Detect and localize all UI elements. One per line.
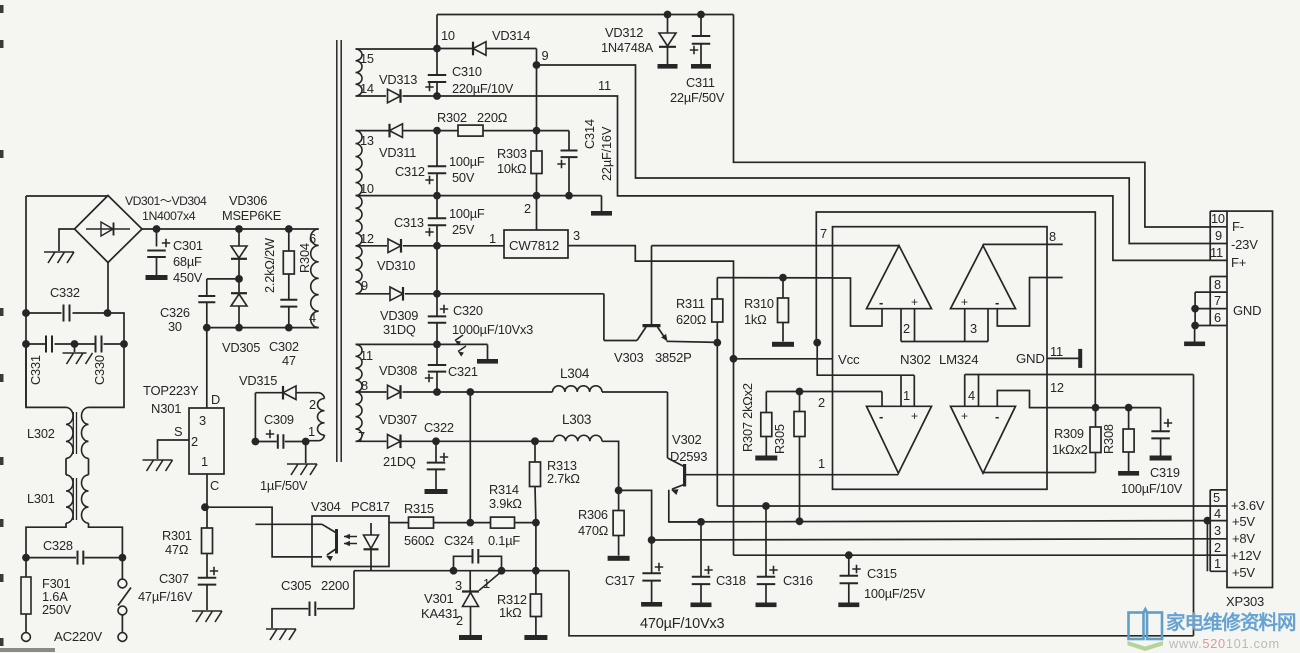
op3 + notch <box>901 375 914 406</box>
label VD309 31DQ <box>380 308 418 337</box>
svg-text:22µF/16V: 22µF/16V <box>599 126 614 181</box>
svg-text:VD305: VD305 <box>222 340 260 355</box>
svg-text:V302: V302 <box>672 432 702 447</box>
wire 12V out <box>568 246 734 359</box>
XP pins 10/9/11 cells <box>1210 211 1227 260</box>
wire C pin <box>201 474 209 511</box>
svg-text:+: + <box>911 409 918 423</box>
wire base row (op3 out) <box>685 474 899 476</box>
svg-text:11: 11 <box>598 78 611 93</box>
svg-text:S: S <box>174 424 182 439</box>
capacitor C311 <box>690 11 711 69</box>
svg-text:1kΩx2: 1kΩx2 <box>1052 442 1088 457</box>
label +3.6V <box>1231 498 1265 513</box>
label R313 2.7kΩ <box>547 458 580 486</box>
label C310 220µF/10V <box>452 64 514 96</box>
winding 10-12 <box>356 196 363 246</box>
capacitor C301 <box>146 229 171 280</box>
svg-text:50V: 50V <box>452 170 475 185</box>
svg-text:L301: L301 <box>27 491 55 506</box>
svg-text:C312: C312 <box>395 164 425 179</box>
svg-text:100µF: 100µF <box>449 154 485 169</box>
wire node9 down to R303 <box>533 65 541 135</box>
svg-text:-: - <box>879 295 883 310</box>
transistor V303 <box>604 246 717 343</box>
svg-text:10kΩ: 10kΩ <box>497 161 527 176</box>
svg-text:C319: C319 <box>1150 465 1180 480</box>
wire node9 to -23V <box>537 65 1211 244</box>
label C318 <box>716 573 746 588</box>
label C305 2200 <box>281 578 349 593</box>
svg-text:-: - <box>995 409 999 424</box>
op1 + notch <box>901 309 915 342</box>
svg-text:11: 11 <box>1050 344 1063 359</box>
svg-text:C324: C324 <box>444 533 474 548</box>
label pin10 <box>1211 211 1225 226</box>
ref rail down <box>1193 375 1195 636</box>
diode VD308 <box>356 385 438 399</box>
svg-text:12: 12 <box>1050 380 1064 395</box>
XP pins 8/7/6 cells <box>1210 277 1227 326</box>
svg-text:1: 1 <box>818 456 825 471</box>
op4 - route <box>997 391 1095 408</box>
label VD301~VD304 1N4007x4 <box>125 194 207 223</box>
label C309 <box>264 412 294 427</box>
ground (C331/C330) <box>63 344 93 364</box>
svg-text:R314: R314 <box>489 482 519 497</box>
svg-text:7: 7 <box>1214 293 1221 308</box>
label pin3 <box>1214 523 1221 538</box>
label F- <box>1232 219 1244 234</box>
wire GND bus <box>1191 292 1210 329</box>
svg-text:1kΩ: 1kΩ <box>744 312 767 327</box>
label V304 PC817 <box>311 499 390 514</box>
svg-text:R315: R315 <box>404 501 434 516</box>
capacitor C328 <box>22 551 126 565</box>
svg-text:VD308: VD308 <box>379 363 417 378</box>
label C328 <box>43 538 73 553</box>
wire top F- start <box>437 14 734 16</box>
label 2 <box>191 434 198 449</box>
label C315 100µF/25V <box>864 566 926 601</box>
svg-text:1: 1 <box>483 576 490 591</box>
svg-text:470µF/10Vx3: 470µF/10Vx3 <box>640 616 724 632</box>
resistor R304 <box>283 225 294 299</box>
op-amp U1c <box>867 406 932 473</box>
capacitor C314 <box>537 131 578 200</box>
wire L304 to V302 collector <box>667 392 669 458</box>
wire row570 left end <box>353 571 355 609</box>
label 2 <box>456 613 463 628</box>
label pin 13 <box>360 133 374 148</box>
label 1 <box>201 454 208 469</box>
capacitor C319 <box>1150 408 1173 461</box>
label R311 620Ω <box>676 296 707 327</box>
svg-text:L303: L303 <box>562 412 591 427</box>
svg-text:-: - <box>879 409 883 424</box>
label R303 10kΩ <box>497 146 527 176</box>
label C301 68µF 450V <box>173 238 203 285</box>
svg-text:C317: C317 <box>605 573 635 588</box>
wire left AC rail / top wire to bridge <box>26 196 108 407</box>
node emitter-frame <box>813 339 821 347</box>
label pin 10 <box>360 181 374 196</box>
label pin 15 <box>360 51 374 66</box>
svg-text:47Ω: 47Ω <box>165 542 189 557</box>
svg-text:22µF/50V: 22µF/50V <box>670 90 725 105</box>
svg-text:C313: C313 <box>394 215 424 230</box>
ground (bridge) <box>44 252 74 263</box>
LED (right) <box>364 523 379 571</box>
label C322 <box>424 420 454 435</box>
ground (R306) <box>608 556 630 561</box>
label C331 <box>28 355 43 385</box>
label pin2 <box>1214 540 1221 555</box>
svg-text:11: 11 <box>360 348 373 363</box>
svg-text:1000µF/10Vx3: 1000µF/10Vx3 <box>452 322 533 337</box>
diode VD309 <box>356 287 438 301</box>
label C321 <box>448 364 478 379</box>
capacitor C321 <box>425 344 446 396</box>
label R307 2kΩx2 <box>740 383 755 452</box>
wire pins2-3 <box>901 341 988 343</box>
svg-text:VD315: VD315 <box>239 373 277 388</box>
svg-text:V304: V304 <box>311 499 341 514</box>
label S <box>174 424 182 439</box>
choke L301 <box>26 475 122 558</box>
winding 11-8 <box>356 344 363 392</box>
svg-text:450V: 450V <box>173 270 203 285</box>
svg-text:C322: C322 <box>424 420 454 435</box>
wire frame to op3+/op4 ref <box>817 343 914 376</box>
svg-text:D2593: D2593 <box>670 449 707 464</box>
ground (S pin) <box>143 460 173 471</box>
resistor R313 <box>530 437 541 526</box>
winding 12-9 <box>356 246 363 294</box>
svg-text:C321: C321 <box>448 364 478 379</box>
diode VD305 <box>231 279 247 328</box>
svg-text:2: 2 <box>818 395 825 410</box>
label LM324 <box>939 352 978 367</box>
svg-text:5: 5 <box>1213 490 1220 505</box>
label VD305 <box>222 340 260 355</box>
resistor R307 <box>761 388 804 456</box>
label pin1 <box>489 231 496 246</box>
watermark url <box>1168 636 1280 651</box>
connector XP303 body <box>1227 211 1273 587</box>
marks (x3 arrows) <box>455 335 466 357</box>
winding 13-10 <box>356 131 363 196</box>
svg-text:47µF/16V: 47µF/16V <box>138 589 193 604</box>
svg-text:C320: C320 <box>453 303 483 318</box>
resistor R308 <box>1123 404 1134 471</box>
svg-text:4: 4 <box>968 388 975 403</box>
capacitor C316 <box>756 506 778 607</box>
label 1 <box>483 576 490 591</box>
label -23V <box>1231 237 1258 252</box>
svg-text:C309: C309 <box>264 412 294 427</box>
label 470µF/10Vx3 <box>640 616 724 632</box>
wire DC bus bridge to transformer <box>142 228 319 230</box>
svg-text:CW7812: CW7812 <box>509 238 559 253</box>
svg-text:3: 3 <box>455 578 462 593</box>
wire row11 <box>356 344 488 359</box>
wire to +8V row <box>619 490 652 540</box>
node pin12 row <box>1092 404 1100 412</box>
svg-text:2: 2 <box>191 434 198 449</box>
label C316 <box>783 573 813 588</box>
label R315 560Ω <box>404 501 435 548</box>
svg-text:C314: C314 <box>582 119 597 149</box>
capacitor C324 <box>450 549 506 575</box>
wire bridge bottom to C332 row <box>107 263 109 314</box>
label pin 9 <box>361 278 368 293</box>
op4 ref wire <box>965 374 1194 376</box>
svg-text:+: + <box>911 295 918 309</box>
transformer core <box>337 40 341 462</box>
svg-text:2200: 2200 <box>321 578 349 593</box>
svg-text:VD307: VD307 <box>379 412 417 427</box>
label 100µF 25V <box>449 206 485 237</box>
label R302 220Ω <box>437 110 508 125</box>
svg-text:C301: C301 <box>173 238 203 253</box>
svg-text:3: 3 <box>573 228 580 243</box>
label C324 0.1µF <box>444 533 520 548</box>
ground (R308) <box>1118 471 1139 476</box>
svg-text:3: 3 <box>1214 523 1221 538</box>
svg-text:1: 1 <box>489 231 496 246</box>
svg-text:3: 3 <box>970 321 977 336</box>
label pin 6 <box>309 231 316 246</box>
svg-text:C331: C331 <box>28 355 43 385</box>
wire to choke left <box>26 344 66 407</box>
svg-text:1N4748A: 1N4748A <box>601 40 654 55</box>
wire VD315 down <box>252 393 260 446</box>
svg-text:F-: F- <box>1232 219 1244 234</box>
svg-text:1: 1 <box>201 454 208 469</box>
svg-text:L304: L304 <box>560 366 590 381</box>
wire row12 to CW7812 <box>437 245 504 247</box>
node L303/R306 <box>615 487 623 495</box>
svg-text:+12V: +12V <box>1231 548 1261 563</box>
label V303 3852P <box>614 350 692 365</box>
outer rail (LM324 frame) <box>816 212 1095 408</box>
svg-text:TOP223Y: TOP223Y <box>143 383 199 398</box>
op-amp U1b <box>951 246 1016 310</box>
label 100µF 50V <box>449 154 485 185</box>
wire R312 col <box>532 523 540 575</box>
wire R307/R305 top row <box>766 391 882 393</box>
svg-text:C332: C332 <box>50 285 80 300</box>
label TOP223Y N301 <box>143 383 199 416</box>
wire to choke right <box>89 344 125 407</box>
label L302 <box>27 426 55 441</box>
winding 8-7 <box>356 392 363 441</box>
node 12V rail Vcc <box>730 355 738 363</box>
capacitor C326 <box>198 279 239 328</box>
label 12 <box>1050 380 1064 395</box>
label VD306 MSEP6KE <box>222 193 281 223</box>
label 1 (winding) <box>308 424 315 439</box>
diode VD315 <box>255 386 296 400</box>
label C311 22µF/50V <box>670 75 725 105</box>
svg-text:4: 4 <box>1214 506 1221 521</box>
label R304 <box>297 243 312 273</box>
capacitor C305 <box>272 601 354 628</box>
label F301 1.6A 250V <box>42 576 72 617</box>
svg-text:1: 1 <box>1214 556 1221 571</box>
svg-text:68µF: 68µF <box>173 254 202 269</box>
svg-text:100µF: 100µF <box>449 206 485 221</box>
op-amp U1a <box>867 246 932 310</box>
resistor R303 <box>531 131 542 200</box>
label R310 1kΩ <box>744 296 774 327</box>
svg-text:R310: R310 <box>744 296 774 311</box>
label pin8 <box>1214 277 1221 292</box>
svg-text:F+: F+ <box>1231 255 1246 270</box>
svg-text:C305: C305 <box>281 578 311 593</box>
svg-text:3.9kΩ: 3.9kΩ <box>489 496 522 511</box>
svg-text:11: 11 <box>1210 245 1223 260</box>
wire pin15 to node10 <box>356 15 438 50</box>
svg-text:47: 47 <box>282 353 296 368</box>
wire D pin <box>206 328 208 408</box>
svg-text:1µF/50V: 1µF/50V <box>260 478 308 493</box>
svg-text:13: 13 <box>360 133 374 148</box>
label C332 <box>50 285 80 300</box>
label pin3 <box>573 228 580 243</box>
svg-text:R308: R308 <box>1101 424 1116 454</box>
label VD311 <box>379 145 416 160</box>
label VD310 <box>377 258 415 273</box>
svg-text:C302: C302 <box>269 339 299 354</box>
node DC+ <box>153 225 161 233</box>
node 9 corner <box>533 48 549 69</box>
ground (V301) <box>459 635 482 640</box>
label R305 <box>772 424 787 454</box>
svg-text:+8V: +8V <box>1232 531 1255 546</box>
svg-text:100µF/10V: 100µF/10V <box>1121 481 1183 496</box>
diode VD314 <box>437 42 537 56</box>
label VD315 <box>239 373 277 388</box>
svg-text:7: 7 <box>820 226 827 241</box>
wire to ground <box>305 442 307 464</box>
label C319 100µF/10V <box>1121 465 1183 496</box>
ground (C307) <box>192 611 222 622</box>
svg-text:-: - <box>995 295 999 310</box>
svg-text:R305: R305 <box>772 424 787 454</box>
resistor R305 col <box>794 392 805 522</box>
wire LED anode <box>388 522 390 524</box>
capacitor C332 <box>22 305 124 345</box>
diode VD310 <box>356 239 438 253</box>
edge artifacts <box>0 5 55 652</box>
svg-text:C316: C316 <box>783 573 813 588</box>
svg-text:R307 2kΩx2: R307 2kΩx2 <box>740 383 755 452</box>
wire col 470 row8 to fb row <box>469 392 471 523</box>
svg-text:470Ω: 470Ω <box>578 523 609 538</box>
resistor R306 <box>613 490 624 555</box>
wire bridge to ground <box>59 229 75 251</box>
op4 out to R309 <box>983 472 1096 475</box>
svg-text:R311: R311 <box>676 296 705 311</box>
label pin9 <box>1215 228 1222 243</box>
wire PC817 collector (to C309-) <box>255 523 322 525</box>
svg-text:+: + <box>961 295 968 309</box>
svg-text:+5V: +5V <box>1232 514 1255 529</box>
capacitor C322 <box>425 441 449 494</box>
wire pin2 <box>536 196 538 230</box>
label 4 (pin) <box>968 388 975 403</box>
label R301 47Ω <box>162 528 192 557</box>
svg-text:31DQ: 31DQ <box>383 322 416 337</box>
svg-text:C330: C330 <box>92 355 107 385</box>
label C307 47µF/16V <box>138 571 193 604</box>
ground (winding) <box>287 464 317 475</box>
switch <box>118 558 131 633</box>
label pin 8 <box>361 378 368 393</box>
phototransistor (left) <box>322 524 337 561</box>
svg-text:R303: R303 <box>497 146 527 161</box>
svg-text:0.1µF: 0.1µF <box>488 533 520 548</box>
label F+ <box>1231 255 1246 270</box>
wire node C310- to F+ (11) <box>437 96 1210 260</box>
svg-text:250V: 250V <box>42 602 72 617</box>
svg-text:620Ω: 620Ω <box>676 312 707 327</box>
svg-text:2: 2 <box>1214 540 1221 555</box>
svg-text:V301: V301 <box>424 591 454 606</box>
svg-text:9: 9 <box>1215 228 1222 243</box>
switcher N301 TOP223Y box <box>189 408 224 474</box>
label L303 <box>562 412 591 427</box>
svg-text:2: 2 <box>903 321 910 336</box>
capacitor C320 <box>428 294 448 349</box>
svg-text:2: 2 <box>524 201 531 216</box>
wire row7 <box>436 437 539 445</box>
node fb1 <box>466 519 474 527</box>
resistor R312 <box>530 571 541 635</box>
svg-text:560Ω: 560Ω <box>404 533 435 548</box>
wire PC817 emitter (to TOP C) <box>205 507 322 557</box>
label 1µF/50V <box>260 478 308 493</box>
op4 + notch <box>965 375 979 407</box>
svg-text:V303: V303 <box>614 350 644 365</box>
shunt regulator V301 KA431 <box>462 571 502 635</box>
svg-text:KA431: KA431 <box>421 606 459 621</box>
wire F- long <box>734 15 1211 228</box>
capacitor C310 <box>425 49 446 100</box>
wire VD313 row <box>356 95 387 97</box>
label pin1 <box>1214 556 1221 571</box>
label L301 <box>27 491 55 506</box>
svg-text:VD310: VD310 <box>377 258 415 273</box>
watermark text cn <box>1166 611 1296 634</box>
svg-text:VD309: VD309 <box>380 308 418 323</box>
svg-text:30: 30 <box>168 319 182 334</box>
svg-text:VD312: VD312 <box>605 25 643 40</box>
inner box N302 <box>833 227 1048 490</box>
label C320 1000µF/10Vx3 <box>452 303 533 337</box>
svg-text:100µF/25V: 100µF/25V <box>864 586 926 601</box>
wire primary bottom bus <box>207 327 319 329</box>
svg-text:10: 10 <box>1211 211 1225 226</box>
capacitor C313 <box>425 196 446 250</box>
+5V pin4-pin1 tie <box>1204 517 1212 572</box>
XP pins 5-1 cells <box>1210 490 1227 571</box>
wire row9 to V303 <box>437 293 604 295</box>
svg-text:8: 8 <box>1214 277 1221 292</box>
label R314 3.9kΩ <box>489 482 522 511</box>
